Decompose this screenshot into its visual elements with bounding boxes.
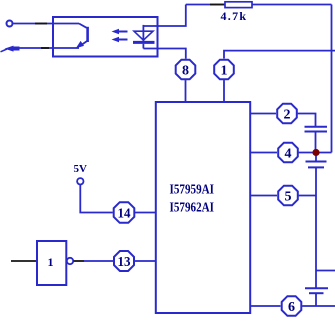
- capacitor C1: [305, 127, 328, 132]
- wire cathode to pin8: [143, 49, 185, 59]
- light arrow 2: [112, 37, 128, 43]
- pin 14: [114, 202, 135, 223]
- wire: [298, 114, 316, 127]
- resistor R 4.7k: [225, 2, 252, 8]
- wire pin4 stub: [250, 152, 277, 154]
- pin 4: [278, 143, 298, 163]
- wire stub to edge: [316, 270, 335, 272]
- wire black segment: [210, 4, 225, 6]
- wire right edge rail: [331, 5, 333, 153]
- wire: [299, 195, 316, 197]
- wire: [135, 212, 156, 214]
- pin 5: [278, 186, 298, 206]
- svg-text:2: 2: [284, 107, 291, 122]
- svg-text:1: 1: [221, 63, 228, 78]
- wire: [315, 167, 317, 195]
- wire rail2: [224, 51, 335, 59]
- junction dot: [312, 149, 319, 156]
- wire: [80, 185, 113, 213]
- wire: [185, 80, 187, 102]
- svg-text:4: 4: [285, 146, 292, 161]
- wire black segment: [41, 47, 49, 49]
- wire anode to rail: [143, 5, 185, 27]
- logic gate box: [37, 241, 66, 285]
- pin 8: [176, 60, 196, 80]
- inverter bubble: [67, 258, 73, 264]
- wire: [315, 132, 317, 153]
- wire pin2 stub: [250, 113, 276, 115]
- LED: [133, 25, 155, 49]
- wire pin6 stub: [250, 305, 280, 307]
- capacitor C3: [305, 288, 328, 293]
- arrow tail: [1, 49, 8, 52]
- wire right cap rail: [315, 196, 317, 289]
- svg-text:I57962AI: I57962AI: [170, 201, 215, 216]
- wire: [84, 260, 113, 262]
- pin 1: [214, 60, 234, 80]
- capacitor C2: [306, 162, 327, 168]
- wire black: [74, 260, 85, 262]
- svg-text:8: 8: [182, 63, 189, 78]
- pin 2: [277, 104, 297, 124]
- svg-text:4.7k: 4.7k: [221, 9, 248, 23]
- light arrow 1: [112, 29, 128, 35]
- wire: [302, 305, 335, 307]
- wire: [18, 47, 79, 49]
- svg-text:1: 1: [48, 255, 54, 269]
- svg-text:14: 14: [118, 207, 131, 222]
- wire: [315, 293, 317, 306]
- input terminal circle: [7, 21, 13, 27]
- wire: [315, 156, 317, 162]
- svg-text:13: 13: [118, 255, 131, 270]
- phototransistor: [53, 24, 88, 49]
- wire top rail left: [186, 4, 225, 6]
- wire top rail right: [252, 4, 332, 6]
- pin 13: [114, 251, 134, 271]
- svg-text:5: 5: [285, 189, 292, 204]
- optocoupler box: [53, 17, 158, 57]
- 5V terminal: [77, 178, 83, 184]
- wire pin5 stub: [250, 195, 277, 197]
- IC U1 box: [156, 102, 250, 313]
- svg-text:I57959AI: I57959AI: [170, 183, 215, 198]
- wire black input: [11, 260, 37, 262]
- output arrow terminal: [5, 46, 20, 52]
- wire: [135, 260, 156, 262]
- wire: [299, 152, 332, 154]
- pin 6: [282, 296, 302, 316]
- wire: [13, 23, 53, 25]
- svg-text:5V: 5V: [74, 163, 88, 175]
- svg-text:6: 6: [288, 300, 295, 315]
- wire black segment: [35, 23, 47, 25]
- wire: [223, 80, 225, 102]
